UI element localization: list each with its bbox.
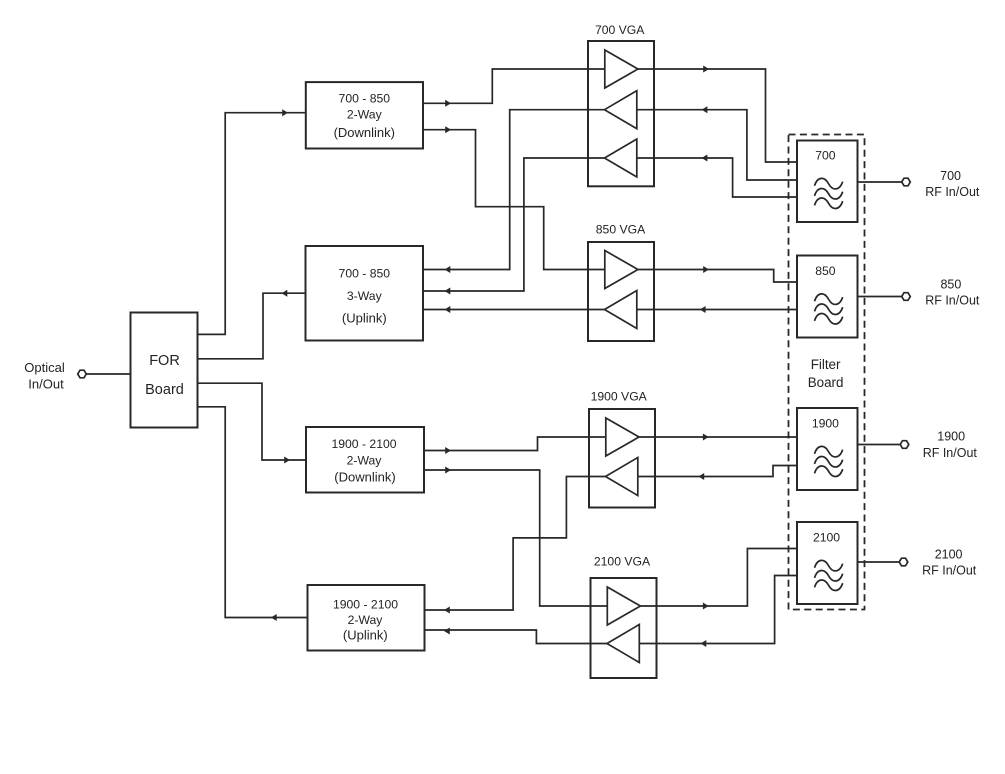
wire 700 filter to 700 VGA uplink amp2 input [637, 158, 797, 197]
filter board dashed enclosure [789, 135, 865, 610]
svg-text:Filter: Filter [811, 357, 841, 372]
2100 RF terminal hexagon [899, 558, 908, 566]
svg-text:2100 VGA: 2100 VGA [594, 555, 651, 569]
svg-text:Optical: Optical [24, 360, 65, 375]
wire 850 VGA uplink amp output to 3-Way Uplink in3 [423, 309, 605, 311]
svg-text:850: 850 [815, 264, 836, 278]
wire 2100 VGA uplink amp output to 1900-2100 2-Way Uplink in2 [425, 630, 608, 644]
svg-text:700 - 850: 700 - 850 [339, 92, 391, 106]
wire 1900-2100 2-Way Uplink output to FOR board [198, 407, 308, 618]
wire optical input to FOR board [86, 373, 130, 375]
svg-text:2-Way: 2-Way [347, 454, 383, 468]
svg-text:850 VGA: 850 VGA [596, 223, 646, 237]
wire 2100 VGA downlink amp output to 2100 filter [640, 549, 797, 607]
2100 filter box [797, 522, 858, 604]
700 VGA box [588, 41, 654, 186]
wire FOR board to 1900-2100 2-Way Downlink input [198, 383, 307, 460]
wire 850 filter to 850 VGA uplink amp input [637, 309, 797, 311]
1900-2100 2-Way Uplink box [308, 585, 425, 651]
wire 1900 VGA downlink amp output to 1900 filter [639, 436, 797, 438]
svg-text:FOR: FOR [149, 353, 180, 369]
arrowhead 850 VGA downlink output [703, 266, 709, 273]
wire 850 VGA downlink amp output to 850 filter [638, 270, 797, 283]
svg-text:Board: Board [808, 375, 844, 390]
arrowhead into 850 VGA uplink amp [700, 306, 706, 313]
svg-text:700: 700 [940, 169, 961, 183]
arrowhead into 1900-2100 2-Way Downlink input [284, 457, 290, 464]
wire 1900 filter to 1900 RF terminal [858, 444, 901, 446]
arrowhead into 2100 VGA uplink amp [701, 640, 707, 647]
wire 1900-2100 2-Way Downlink out1 to 1900 VGA downlink amp input [424, 437, 606, 451]
wire 700 VGA uplink amp2 output to 3-Way Uplink in2 [423, 158, 605, 291]
arrowhead 2100 VGA downlink output [703, 603, 709, 610]
svg-text:1900 VGA: 1900 VGA [591, 390, 648, 404]
svg-text:1900 - 2100: 1900 - 2100 [333, 598, 398, 612]
wire 1900 filter to 1900 VGA uplink amp input [638, 466, 797, 477]
2100 filter symbol waves [815, 560, 843, 590]
850 filter box [797, 256, 858, 338]
700 RF terminal hexagon [902, 178, 911, 186]
1900 filter box [797, 408, 858, 490]
arrowhead into 3-Way Uplink in1 [445, 266, 451, 273]
700 filter box [797, 141, 858, 223]
2100 VGA box [591, 578, 657, 678]
1900 VGA uplink amp triangle [606, 458, 638, 496]
wire 2100 filter to 2100 RF terminal [858, 561, 900, 563]
arrowhead 700 VGA downlink output [703, 66, 709, 73]
850 VGA downlink amp triangle [605, 251, 638, 289]
1900 RF terminal hexagon [900, 441, 909, 449]
1900 VGA downlink amp triangle [606, 418, 639, 456]
arrowhead into 2-Way Downlink input [282, 109, 288, 116]
1900 filter symbol waves [815, 446, 843, 476]
svg-text:2100: 2100 [935, 548, 963, 562]
700 VGA uplink amp1 triangle [605, 91, 637, 129]
wire 700 filter to 700 RF terminal [858, 181, 902, 183]
arrowhead into 700 VGA uplink amp1 [702, 106, 708, 113]
optical terminal hexagon [78, 370, 87, 378]
svg-text:1900: 1900 [812, 417, 839, 431]
wire 700 VGA downlink amp output to 700 filter [638, 69, 797, 162]
1900-2100 2-Way Downlink box [306, 427, 424, 493]
850 filter symbol waves [815, 294, 843, 324]
arrowhead 1900-2100 2-Way Downlink out1 [445, 447, 451, 454]
svg-text:850: 850 [940, 278, 961, 292]
arrowhead 2-Way Downlink out1 [445, 100, 451, 107]
wire 2-Way Downlink out2 to 850 VGA downlink amp input [423, 130, 605, 270]
arrowhead into 1900-2100 2-Way Uplink in1 [444, 607, 450, 614]
svg-text:700 VGA: 700 VGA [595, 23, 645, 37]
850 RF terminal hexagon [902, 293, 911, 301]
svg-text:(Uplink): (Uplink) [342, 311, 387, 326]
arrowhead into 3-Way Uplink in2 [445, 288, 451, 295]
svg-text:700: 700 [815, 149, 836, 163]
arrowhead 1900-2100 2-Way Downlink out2 [445, 467, 451, 474]
arrowhead 2-Way Downlink out2 [445, 126, 451, 133]
700-850 2-Way Downlink box [306, 82, 423, 148]
700 filter symbol waves [815, 178, 843, 208]
arrowhead 1900-2100 2-Way Uplink output [271, 614, 277, 621]
svg-text:1900: 1900 [937, 430, 965, 444]
arrowhead 1900 VGA downlink output [703, 434, 709, 441]
wire 850 filter to 850 RF terminal [858, 296, 902, 298]
wire 2-Way Downlink out1 to 700 VGA downlink amp input [423, 69, 605, 103]
svg-text:700 - 850: 700 - 850 [339, 267, 391, 281]
svg-text:2-Way: 2-Way [347, 108, 383, 122]
wire 1900 VGA uplink amp output to 1900-2100 2-Way Uplink in1 [425, 477, 606, 611]
svg-text:1900 - 2100: 1900 - 2100 [331, 437, 396, 451]
wire FOR board to 700-850 2-Way Downlink input [198, 113, 306, 335]
svg-text:(Uplink): (Uplink) [343, 628, 388, 643]
FOR board box [131, 313, 198, 428]
arrowhead into 3-Way Uplink in3 [445, 306, 451, 313]
2100 VGA uplink amp triangle [607, 625, 639, 663]
700 VGA uplink amp2 triangle [605, 139, 637, 177]
svg-text:2-Way: 2-Way [348, 613, 384, 627]
svg-text:2100: 2100 [813, 530, 840, 544]
arrowhead into 1900-2100 2-Way Uplink in2 [444, 628, 450, 635]
wire 3-Way Uplink output to FOR board [198, 293, 306, 359]
svg-text:RF In/Out: RF In/Out [925, 185, 980, 199]
700 VGA downlink amp triangle [605, 50, 638, 88]
wire 700 filter to 700 VGA uplink amp1 input [637, 110, 797, 180]
700-850 3-Way Uplink box [306, 246, 424, 341]
wire 700 VGA uplink amp1 output to 3-Way Uplink in1 [423, 110, 605, 270]
svg-text:RF In/Out: RF In/Out [922, 564, 977, 578]
850 VGA box [588, 242, 654, 341]
850 VGA uplink amp triangle [605, 291, 637, 329]
1900 VGA box [589, 409, 655, 508]
svg-text:RF In/Out: RF In/Out [925, 294, 980, 308]
wire 1900-2100 2-Way Downlink out2 to 2100 VGA downlink amp input [424, 470, 607, 606]
arrowhead into 1900 VGA uplink amp [698, 473, 704, 480]
svg-text:In/Out: In/Out [28, 377, 64, 392]
svg-text:3-Way: 3-Way [347, 289, 383, 303]
wire 2100 filter to 2100 VGA uplink amp input [639, 576, 797, 644]
svg-text:(Downlink): (Downlink) [334, 125, 395, 140]
svg-text:(Downlink): (Downlink) [334, 470, 395, 485]
svg-text:RF In/Out: RF In/Out [923, 446, 978, 460]
arrowhead into 700 VGA uplink amp2 [702, 155, 708, 162]
2100 VGA downlink amp triangle [607, 587, 640, 625]
arrowhead 3-Way Uplink output [282, 290, 288, 297]
svg-text:Board: Board [145, 382, 184, 398]
